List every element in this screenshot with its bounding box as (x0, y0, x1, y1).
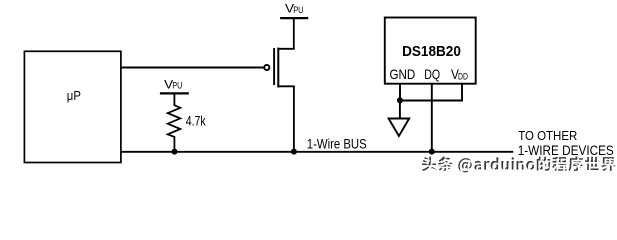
junction dot: resistor to bus (172, 149, 178, 155)
svg-text:GND: GND (390, 66, 416, 82)
wire: Q1 drain down to bus (293, 86, 295, 152)
watermark 头条 @arduino的程序世界 (422, 156, 617, 174)
wire: Q1 source to VPU rail (293, 18, 295, 49)
power rail VPU (top) (280, 17, 308, 19)
wire: GND pin (399, 84, 401, 100)
junction dot: GND node (397, 97, 403, 103)
DS18B20 U2 box (385, 18, 476, 84)
svg-text:DS18B20: DS18B20 (402, 43, 461, 60)
wire: VDD pin to GND node (400, 84, 462, 101)
junction dot: MOSFET drain to bus (291, 149, 297, 155)
svg-text:1-WIRE DEVICES: 1-WIRE DEVICES (518, 143, 614, 158)
svg-text:μP: μP (67, 89, 81, 103)
svg-text:DD: DD (458, 71, 468, 82)
svg-text:1-Wire BUS: 1-Wire BUS (307, 137, 367, 152)
junction dot: DQ to bus (429, 149, 435, 155)
ground symbol (389, 119, 410, 137)
1-Wire bus wire (121, 151, 513, 153)
svg-text:4.7k: 4.7k (186, 112, 207, 128)
svg-text:TO OTHER: TO OTHER (518, 128, 577, 143)
svg-text:PU: PU (293, 5, 303, 15)
power rail VPU (resistor) (160, 92, 189, 94)
wire: DQ pin down to bus (431, 84, 433, 152)
wire: GND node to ground (399, 100, 401, 118)
svg-text:PU: PU (172, 81, 182, 91)
transistor Q1 P-channel MOSFET (264, 48, 294, 88)
microprocessor U1 box (24, 51, 121, 162)
resistor R1 (168, 95, 181, 152)
wire: μP to MOSFET gate (121, 67, 265, 69)
svg-text:DQ: DQ (424, 66, 440, 82)
